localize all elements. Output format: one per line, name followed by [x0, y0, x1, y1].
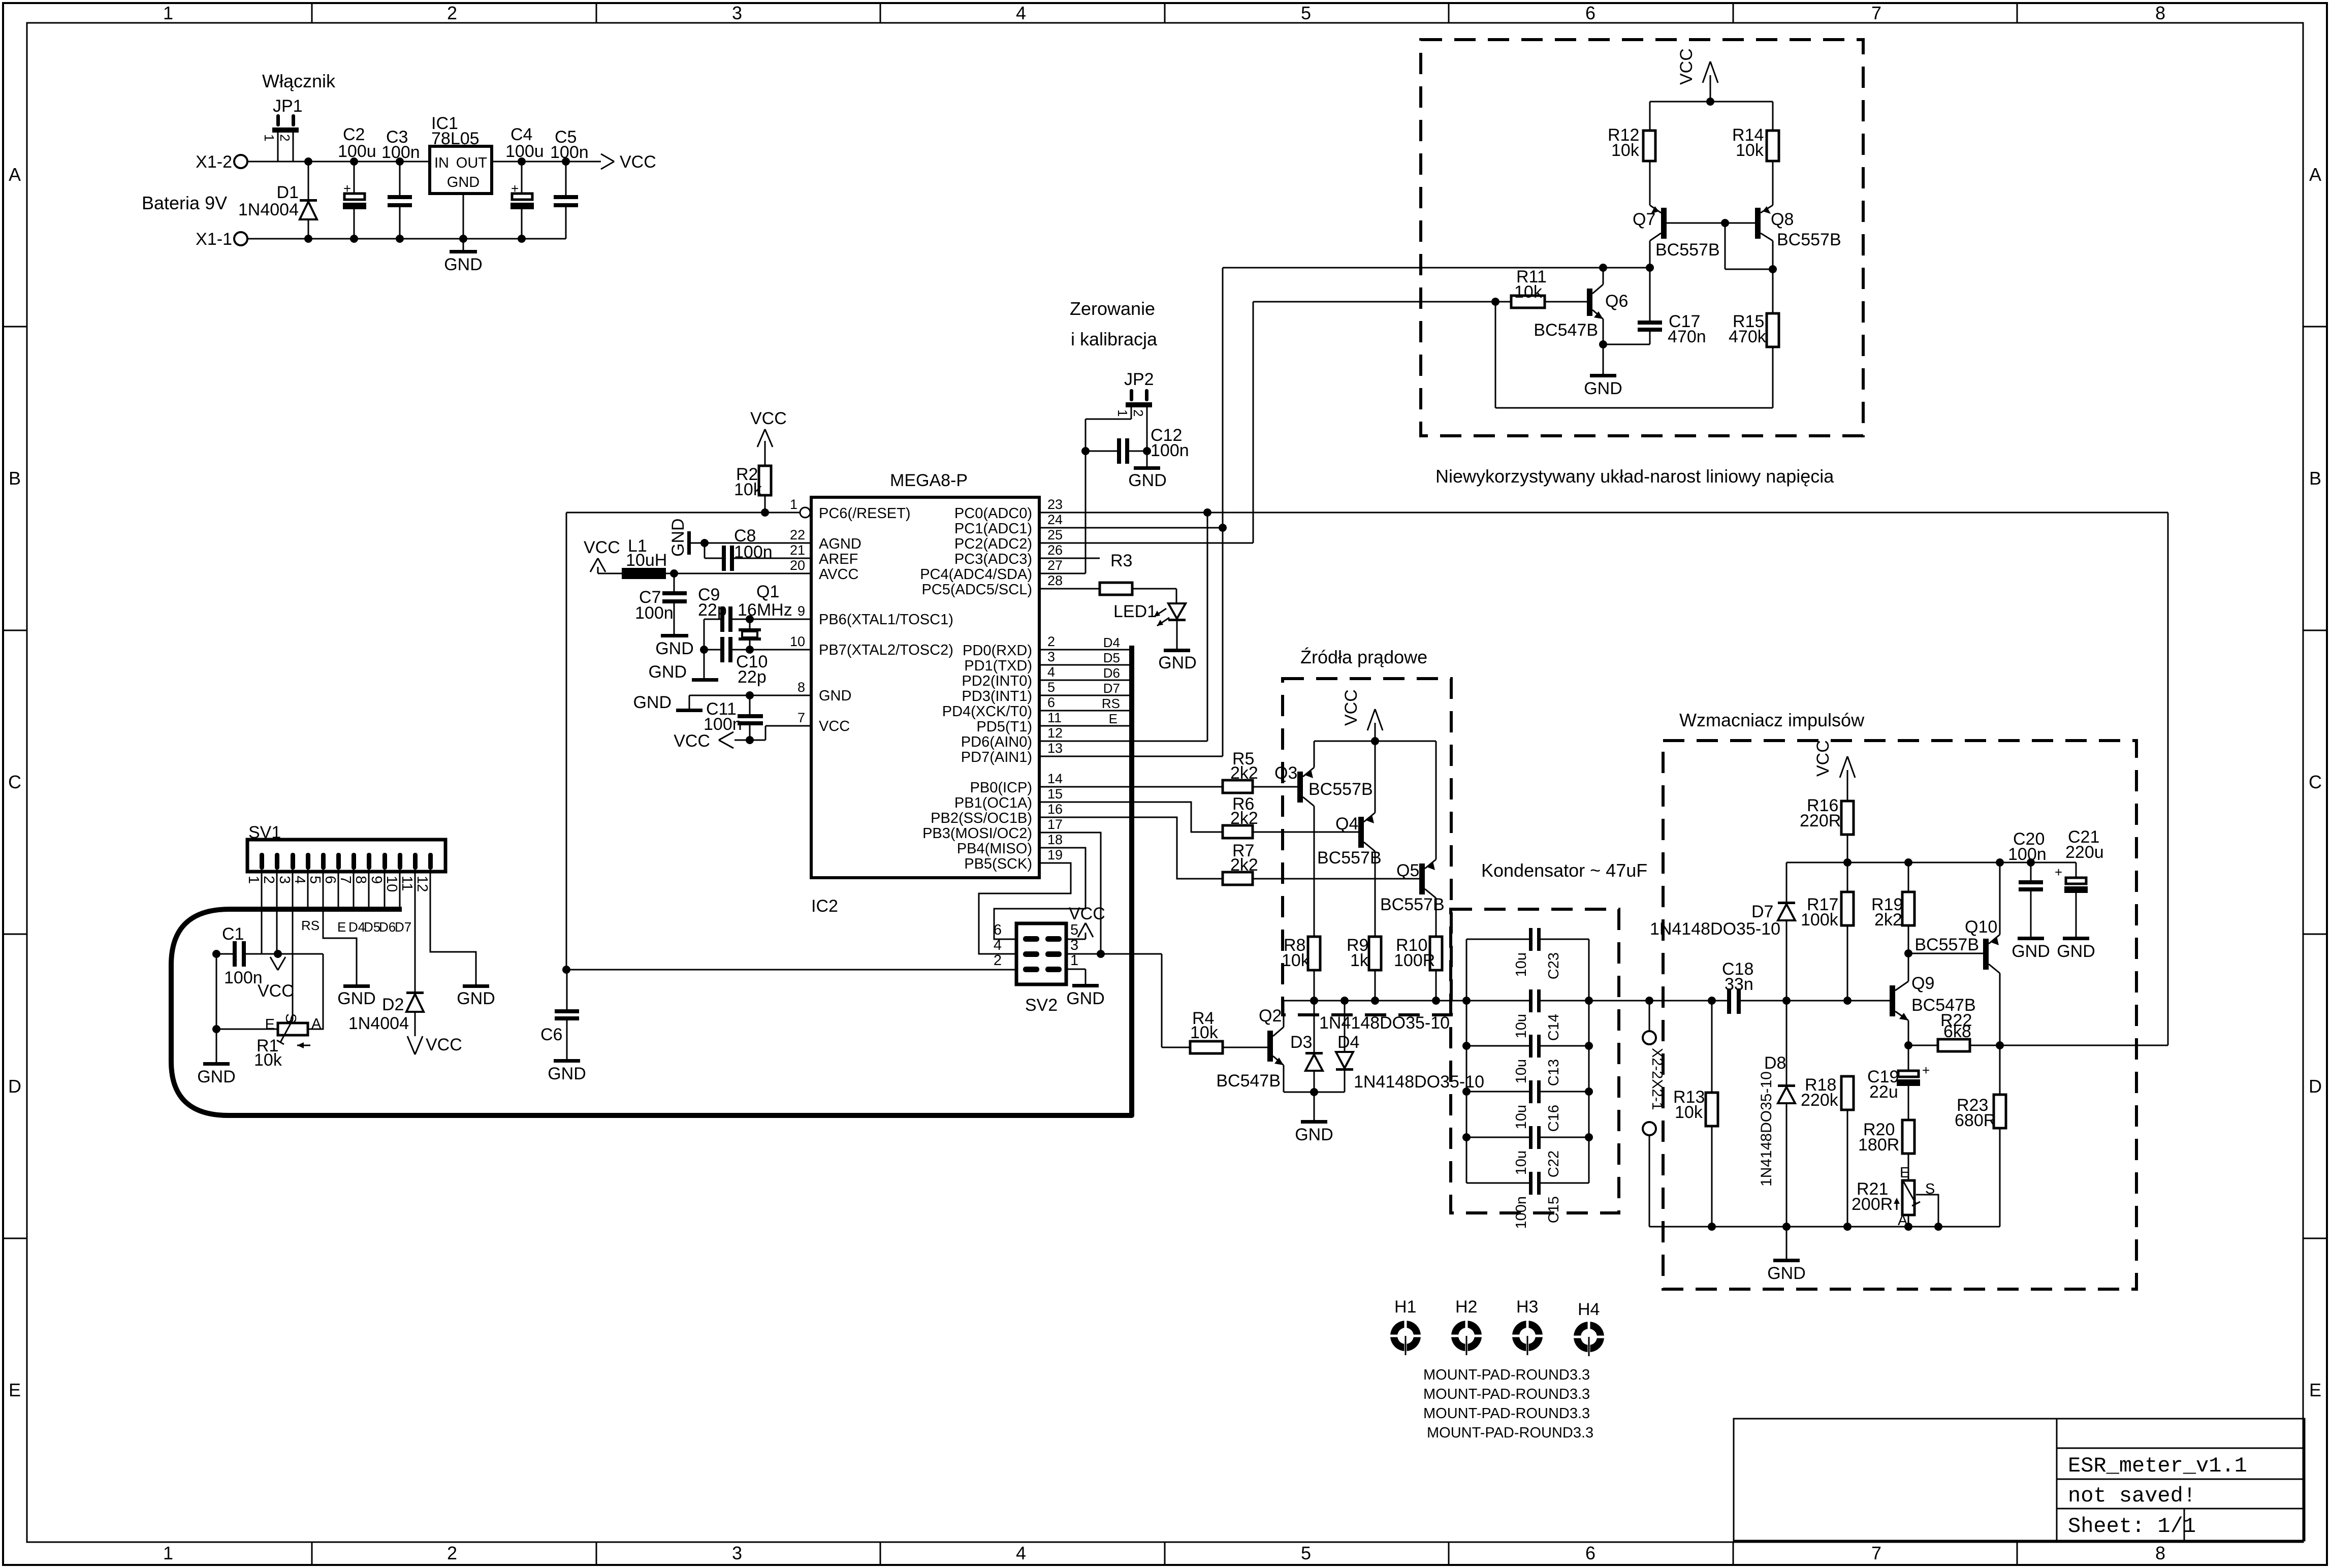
wire net PB2 to R7	[1039, 817, 1223, 879]
ground GND below D3	[1295, 1120, 1333, 1144]
svg-text:Q8: Q8	[1771, 210, 1794, 229]
frame column labels bottom	[163, 1543, 2165, 1563]
wire SV1 pin drops to bus	[308, 870, 400, 909]
wire net PC1 pin24	[1039, 264, 1654, 756]
svg-text:OUT: OUT	[456, 155, 488, 171]
power arrow VCC at AVCC	[584, 538, 620, 573]
svg-text:VCC: VCC	[1813, 740, 1833, 777]
mount pad H4	[1572, 1300, 1606, 1356]
ground GND below C20	[2012, 937, 2050, 961]
svg-text:AVCC: AVCC	[819, 566, 858, 583]
svg-text:3: 3	[732, 3, 742, 23]
capacitor C5 100n	[550, 127, 589, 239]
svg-text:D4: D4	[1337, 1033, 1359, 1052]
svg-text:2k2: 2k2	[1874, 910, 1902, 930]
svg-text:D7: D7	[1751, 902, 1773, 921]
wire VCC rail top right box	[1650, 98, 1773, 106]
svg-text:16MHz: 16MHz	[738, 600, 792, 620]
svg-text:E: E	[1109, 711, 1118, 726]
svg-text:GND: GND	[1066, 989, 1105, 1008]
wire Q8 base to collector	[1725, 223, 1777, 273]
svg-text:PC0(ADC0): PC0(ADC0)	[954, 505, 1032, 522]
capacitor C23 10u	[1466, 928, 1589, 979]
svg-text:100k: 100k	[1801, 910, 1839, 930]
svg-text:4: 4	[1016, 3, 1026, 23]
frame row labels left	[8, 164, 21, 1400]
svg-text:VCC: VCC	[1342, 689, 1361, 726]
connector X2-2X2-1	[1643, 1001, 1665, 1227]
MCU left pin numbers	[790, 497, 805, 725]
resistor R2 10k	[734, 465, 771, 513]
inductor L1 10uH	[598, 536, 811, 579]
frame row dividers right	[2303, 327, 2327, 1238]
svg-text:H3: H3	[1516, 1297, 1538, 1317]
svg-text:PD2(INT0): PD2(INT0)	[962, 673, 1032, 689]
capacitor C18 33n	[1722, 959, 1890, 1014]
svg-text:GND: GND	[1158, 653, 1197, 673]
capacitor C17 470n	[1638, 268, 1706, 346]
svg-text:A: A	[311, 1016, 322, 1032]
svg-text:15: 15	[1047, 786, 1063, 802]
svg-text:1N4004: 1N4004	[348, 1014, 409, 1033]
svg-text:180R: 180R	[1858, 1135, 1899, 1155]
svg-text:VCC: VCC	[674, 731, 710, 751]
wire net PB4 MISO to SV2 pin6	[994, 848, 1086, 939]
svg-text:H1: H1	[1394, 1297, 1416, 1317]
svg-text:6: 6	[994, 922, 1002, 938]
svg-text:1: 1	[1070, 952, 1078, 969]
svg-text:5: 5	[307, 876, 323, 884]
resistor R15 470k	[1729, 312, 1779, 408]
svg-text:MOUNT-PAD-ROUND3.3: MOUNT-PAD-ROUND3.3	[1427, 1425, 1593, 1441]
svg-text:Q6: Q6	[1605, 292, 1628, 311]
MCU right pin numbers	[1047, 497, 1063, 862]
mount pad H3	[1510, 1297, 1545, 1355]
frame row labels right	[2309, 164, 2322, 1400]
svg-text:PB0(ICP): PB0(ICP)	[970, 780, 1032, 796]
svg-text:PD4(XCK/T0): PD4(XCK/T0)	[942, 703, 1032, 720]
ground GND at SV1 pin12	[457, 984, 495, 1008]
svg-text:PB5(SCK): PB5(SCK)	[964, 856, 1032, 872]
svg-text:1: 1	[245, 876, 262, 884]
wire Q2 emitter to D3 D4 ground row	[1284, 1088, 1345, 1120]
svg-text:C14: C14	[1546, 1014, 1562, 1041]
capacitor C14 10u	[1513, 989, 1589, 1041]
svg-text:8: 8	[2155, 1543, 2165, 1563]
svg-text:D3: D3	[1290, 1033, 1312, 1052]
ground GND below C7	[655, 634, 694, 658]
resistor R8 10k	[1282, 936, 1320, 1001]
svg-text:100u: 100u	[505, 142, 544, 161]
capacitor C19 22u	[1867, 1045, 1930, 1120]
resistor R6 2k2	[1223, 794, 1358, 838]
svg-text:11: 11	[1047, 710, 1062, 725]
svg-text:2: 2	[1047, 634, 1055, 649]
capacitor C16 10u	[1466, 1080, 1589, 1132]
ground GND at SV2 pin1	[1066, 984, 1105, 1008]
ground GND rotated at AGND	[668, 518, 691, 557]
svg-text:11: 11	[399, 876, 415, 891]
svg-text:1N4148DO35-10: 1N4148DO35-10	[1758, 1071, 1775, 1187]
transistor Q6 BC547B	[1534, 268, 1628, 344]
resistor R4 10k	[1190, 1009, 1267, 1053]
svg-text:S: S	[282, 1013, 299, 1023]
wire main output node row	[1284, 997, 1530, 1005]
svg-text:100n: 100n	[550, 143, 589, 162]
wire bottom rail X1-1	[247, 235, 566, 243]
svg-text:PB7(XTAL2/TOSC2): PB7(XTAL2/TOSC2)	[819, 642, 953, 658]
svg-text:4: 4	[1016, 1543, 1026, 1563]
resistor R12 10k	[1608, 102, 1655, 205]
svg-text:1: 1	[262, 134, 277, 141]
title block	[1734, 1419, 2305, 1541]
svg-text:10k: 10k	[254, 1050, 282, 1070]
wire OUT to VCC	[492, 161, 601, 163]
ground GND below C9 C10	[648, 662, 718, 682]
svg-text:10k: 10k	[1190, 1023, 1219, 1042]
svg-text:R3: R3	[1110, 551, 1132, 570]
svg-text:GND: GND	[457, 989, 495, 1008]
capacitor C22 10u	[1466, 1126, 1589, 1177]
svg-text:PC3(ADC3): PC3(ADC3)	[954, 551, 1032, 567]
svg-text:E: E	[9, 1380, 21, 1400]
transistor Q9 BC547B	[1890, 953, 1976, 1045]
wire C9 C10 ground leg	[700, 619, 708, 678]
svg-text:Q5: Q5	[1396, 861, 1419, 880]
power arrow VCC at pin7	[674, 731, 733, 751]
wire SV1 pin3 to R1 wiper	[292, 870, 294, 1020]
svg-text:GND: GND	[337, 989, 376, 1008]
svg-text:AGND: AGND	[819, 536, 861, 552]
wire SV1 pin12 to ground	[430, 870, 476, 984]
svg-text:2: 2	[277, 134, 293, 141]
svg-text:GND: GND	[655, 639, 694, 658]
ground GND below C21	[2057, 937, 2095, 961]
svg-text:5: 5	[1301, 1543, 1311, 1563]
svg-text:A: A	[9, 164, 21, 185]
svg-text:6: 6	[322, 876, 338, 884]
svg-text:100n: 100n	[1513, 1196, 1529, 1229]
svg-text:GND: GND	[2012, 942, 2050, 961]
svg-text:Sheet: 1/1: Sheet: 1/1	[2068, 1514, 2196, 1539]
capacitor C21 220u	[2055, 827, 2104, 937]
wire AGND pin22	[691, 539, 811, 547]
svg-text:7: 7	[337, 876, 354, 884]
resistor R3	[1039, 551, 1176, 603]
svg-text:100n: 100n	[224, 968, 263, 987]
svg-text:23: 23	[1047, 497, 1063, 512]
svg-text:680R: 680R	[1955, 1111, 1996, 1130]
svg-text:D4: D4	[1103, 635, 1120, 650]
diode D2 1N4004	[348, 991, 424, 1036]
svg-text:Niewykorzystywany układ-narost: Niewykorzystywany układ-narost liniowy n…	[1435, 466, 1834, 487]
net labels RS E D4 D5 D6 D7 under SV1 bus	[301, 918, 411, 935]
capacitor C1 100n	[212, 924, 323, 987]
capacitor C10 22p	[704, 637, 811, 687]
svg-text:PB4(MISO): PB4(MISO)	[957, 841, 1032, 857]
wire main line bank to C18	[1589, 997, 1727, 1005]
svg-text:ESR_meter_v1.1: ESR_meter_v1.1	[2068, 1454, 2247, 1478]
svg-text:9: 9	[368, 876, 385, 884]
transistor Q5 BC557B	[1380, 741, 1445, 937]
svg-text:5: 5	[1070, 922, 1078, 938]
crystal Q1 16MHz	[738, 582, 792, 654]
svg-text:JP2: JP2	[1124, 370, 1154, 389]
svg-text:7: 7	[797, 710, 805, 725]
wire capacitor bank right rail	[1585, 939, 1593, 1183]
wire bottom return top right box	[1495, 302, 1773, 408]
wire C1 to R1 E terminal	[212, 954, 278, 1062]
svg-text:100n: 100n	[1151, 441, 1189, 460]
svg-text:10k: 10k	[1282, 951, 1310, 970]
wire data stubs PD0-PD5 to bus	[1039, 650, 1130, 726]
wire net PB3 MOSI to SV2 pin3	[1039, 833, 1101, 954]
jumper JP1	[262, 97, 303, 162]
mount pad H2	[1449, 1297, 1484, 1355]
svg-text:220R: 220R	[1800, 811, 1841, 830]
svg-text:+: +	[1922, 1063, 1930, 1078]
svg-text:10u: 10u	[1513, 952, 1529, 977]
svg-text:VCC: VCC	[426, 1035, 462, 1054]
svg-text:C6: C6	[540, 1025, 562, 1044]
wire net PC2 pin25	[1039, 298, 1499, 543]
transistor Q8 BC557B	[1755, 205, 1841, 313]
svg-text:MOUNT-PAD-ROUND3.3: MOUNT-PAD-ROUND3.3	[1423, 1367, 1590, 1383]
svg-text:200R: 200R	[1852, 1195, 1893, 1214]
value labels MOUNT-PAD-ROUND3.3	[1423, 1367, 1593, 1441]
diode D4 1N4148	[1336, 1001, 1359, 1092]
diode D7 1N4148	[1751, 862, 1795, 1001]
ground GND below C12	[1128, 466, 1167, 490]
resistor R20 180R	[1858, 1120, 1914, 1180]
svg-text:BC557B: BC557B	[1777, 230, 1841, 249]
svg-text:5: 5	[1047, 680, 1055, 695]
svg-text:6: 6	[1047, 695, 1055, 710]
svg-text:28: 28	[1047, 573, 1063, 588]
svg-text:10u: 10u	[1513, 1059, 1529, 1083]
svg-text:220k: 220k	[1801, 1091, 1839, 1110]
wire SV1 pin5 to ground	[323, 870, 357, 984]
capacitor C4 100u	[505, 125, 544, 239]
dashed box capacitor bank	[1451, 909, 1619, 1213]
svg-text:VCC: VCC	[1069, 904, 1105, 923]
svg-text:470k: 470k	[1729, 327, 1767, 346]
capacitor C15 100n	[1466, 1172, 1589, 1229]
svg-text:16: 16	[1047, 802, 1063, 817]
power arrow VCC above R2	[750, 409, 787, 466]
svg-text:2: 2	[447, 3, 457, 23]
wire net PB5 SCK to SV2 pin4	[979, 863, 1071, 954]
connector X1-2	[196, 152, 247, 172]
svg-text:10u: 10u	[1513, 1014, 1529, 1038]
svg-text:PC5(ADC5/SCL): PC5(ADC5/SCL)	[921, 582, 1032, 598]
svg-text:1N4148DO35-10: 1N4148DO35-10	[1650, 919, 1780, 939]
dashed box unused circuit	[1421, 40, 1863, 436]
resistor R14 10k	[1732, 102, 1779, 205]
svg-text:VCC: VCC	[584, 538, 620, 557]
svg-text:PD1(TXD): PD1(TXD)	[964, 658, 1032, 674]
net labels D4 D5 D6 D7 RS E at bus	[1102, 635, 1120, 726]
frame row dividers left	[3, 327, 27, 1238]
resistor R19 2k2	[1871, 862, 1914, 953]
svg-text:7: 7	[1871, 1543, 1881, 1563]
MCU pin 1 reset circle	[800, 507, 810, 518]
svg-text:X1-2: X1-2	[196, 152, 232, 172]
wire net PB1 to R6	[1039, 802, 1223, 832]
svg-text:VCC: VCC	[258, 981, 294, 1001]
ground GND below C1 R1	[197, 1062, 236, 1086]
svg-text:2: 2	[447, 1543, 457, 1563]
resistor R17 100k	[1801, 892, 1854, 1001]
svg-text:2: 2	[261, 876, 277, 884]
svg-text:C15: C15	[1546, 1196, 1562, 1223]
svg-text:SV2: SV2	[1025, 996, 1058, 1015]
power arrow VCC at SV2 pin5	[1066, 904, 1105, 939]
SV1 pins	[260, 853, 433, 870]
svg-text:Q1: Q1	[756, 582, 779, 601]
ground GND below C6	[548, 1059, 586, 1083]
svg-text:LED1: LED1	[1113, 602, 1157, 621]
svg-text:GND: GND	[1128, 471, 1167, 490]
ground GND below Q6	[1584, 374, 1622, 398]
svg-text:8: 8	[353, 876, 369, 884]
svg-text:BC547B: BC547B	[1216, 1071, 1281, 1091]
svg-text:10: 10	[384, 876, 400, 892]
svg-text:PB2(SS/OC1B): PB2(SS/OC1B)	[931, 810, 1032, 826]
svg-text:E: E	[1900, 1165, 1909, 1181]
svg-text:8: 8	[797, 680, 805, 695]
svg-text:18: 18	[1047, 832, 1063, 847]
wire SV1 pin1 to C1	[261, 870, 263, 954]
svg-text:D6: D6	[1103, 665, 1120, 681]
svg-text:Q3: Q3	[1274, 763, 1297, 783]
svg-text:100n: 100n	[381, 143, 420, 162]
capacitor C2 100u	[338, 125, 376, 239]
svg-text:E: E	[337, 919, 346, 935]
svg-text:100u: 100u	[338, 142, 376, 161]
section label Zerowanie i kalibracja	[1070, 298, 1158, 349]
svg-text:5: 5	[1301, 3, 1311, 23]
svg-text:Q10: Q10	[1965, 917, 1997, 937]
svg-text:GND: GND	[633, 693, 672, 712]
svg-text:GND: GND	[648, 662, 687, 682]
svg-text:Źródła prądowe: Źródła prądowe	[1300, 647, 1427, 667]
wire R1 A terminal to VCC net	[308, 954, 323, 1029]
SV2 pin numbers	[994, 922, 1078, 969]
svg-text:GND: GND	[444, 255, 483, 274]
svg-text:Q9: Q9	[1911, 974, 1934, 993]
svg-text:9: 9	[797, 603, 805, 619]
svg-text:BC557B: BC557B	[1655, 240, 1720, 260]
svg-text:13: 13	[1047, 741, 1063, 756]
capacitor C20 100n	[2008, 829, 2047, 937]
wire net RESET pin1 to SV2 pin2	[562, 508, 1016, 974]
svg-text:17: 17	[1047, 817, 1063, 832]
svg-text:10uH: 10uH	[626, 551, 667, 570]
svg-text:C22: C22	[1546, 1150, 1562, 1177]
svg-text:12: 12	[414, 876, 430, 892]
diode D3 1N4148	[1290, 1001, 1323, 1092]
MCU left pin names	[819, 505, 953, 734]
resistor R23 680R	[1955, 1045, 2006, 1227]
svg-text:GND: GND	[197, 1067, 236, 1086]
potentiometer R21 200R	[1852, 1165, 1938, 1229]
svg-text:3: 3	[1047, 649, 1055, 664]
wire bottom rail pulse amp	[1649, 1223, 2000, 1259]
svg-text:10k: 10k	[1514, 282, 1543, 302]
svg-text:100n: 100n	[2008, 845, 2047, 864]
svg-text:2: 2	[994, 952, 1002, 969]
resistor R7 2k2	[1223, 841, 1419, 885]
svg-text:H4: H4	[1578, 1300, 1600, 1319]
ground GND at SV1 pin5	[337, 984, 376, 1008]
svg-text:D8: D8	[1764, 1053, 1786, 1073]
svg-text:24: 24	[1047, 512, 1063, 527]
svg-text:B: B	[9, 468, 21, 489]
svg-text:3: 3	[276, 876, 293, 884]
svg-text:1: 1	[1115, 409, 1130, 417]
svg-text:22: 22	[790, 527, 805, 542]
wire VCC rail in current source box	[1314, 737, 1436, 745]
resistor R10 100R	[1394, 936, 1442, 1001]
svg-text:D: D	[8, 1076, 21, 1097]
capacitor C6	[540, 970, 579, 1059]
svg-text:10: 10	[790, 634, 805, 649]
resistor R9 1k	[1347, 936, 1381, 1001]
svg-text:Q4: Q4	[1335, 814, 1358, 834]
diode D8 1N4148	[1764, 1001, 1795, 1227]
svg-text:2: 2	[1131, 409, 1146, 417]
svg-text:C16: C16	[1546, 1105, 1562, 1132]
SV1 pin numbers 1-12 rotated	[245, 876, 430, 892]
svg-text:C1: C1	[222, 924, 244, 944]
svg-text:22u: 22u	[1869, 1082, 1898, 1102]
svg-text:BC557B: BC557B	[1308, 780, 1373, 799]
svg-text:Zerowanie: Zerowanie	[1070, 298, 1155, 319]
transistor Q10 BC557B	[1914, 862, 2000, 1045]
svg-text:C: C	[2309, 772, 2322, 792]
svg-text:PC4(ADC4/SDA): PC4(ADC4/SDA)	[920, 566, 1032, 583]
svg-text:27: 27	[1047, 558, 1063, 573]
svg-text:220u: 220u	[2065, 843, 2104, 862]
svg-text:not saved!: not saved!	[2068, 1484, 2196, 1508]
svg-text:MEGA8-P: MEGA8-P	[890, 471, 968, 490]
wire R19 to Q10 base with Q9 collector junction	[1904, 949, 1983, 957]
svg-text:PC1(ADC1): PC1(ADC1)	[954, 521, 1032, 537]
svg-text:AREF: AREF	[819, 551, 858, 567]
MCU IC2 MEGA8-P body	[811, 471, 1039, 916]
connector SV2 ISP header	[1016, 923, 1066, 1015]
svg-text:PD6(AIN0): PD6(AIN0)	[961, 734, 1032, 750]
svg-text:PB1(OC1A): PB1(OC1A)	[954, 795, 1032, 811]
transistor Q3 BC557B	[1274, 741, 1373, 937]
svg-text:D2: D2	[382, 995, 404, 1014]
svg-text:12: 12	[1047, 725, 1063, 741]
power arrow VCC top right box	[1677, 48, 1718, 102]
wire SV1 pin11 to D2	[414, 870, 416, 991]
wire SV2 pin3 to R4	[1066, 950, 1190, 1047]
svg-text:1: 1	[790, 497, 797, 512]
svg-text:VCC: VCC	[1677, 48, 1696, 85]
svg-text:D7: D7	[1103, 681, 1120, 696]
svg-text:GND: GND	[548, 1064, 586, 1083]
transistor Q7 BC557B	[1633, 205, 1755, 268]
svg-text:PD7(AIN1): PD7(AIN1)	[961, 749, 1032, 765]
svg-text:GND: GND	[2057, 942, 2095, 961]
wire net PC4 pin27 to JP2	[1039, 406, 1131, 573]
power arrow VCC output	[601, 152, 656, 172]
svg-text:10u: 10u	[1513, 1105, 1529, 1129]
